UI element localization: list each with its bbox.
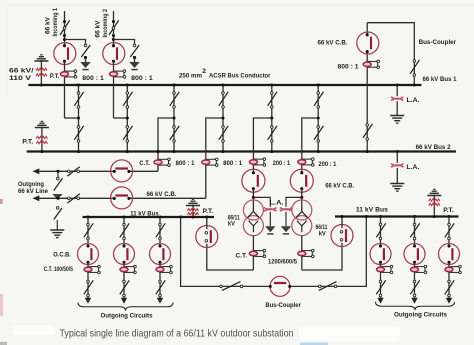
wire: incoming line 1 drop xyxy=(64,11,66,45)
isolator to Bus 1, selector 2 xyxy=(123,92,132,109)
brace: left outgoing circuits xyxy=(78,303,173,311)
earthing switch, line 1 xyxy=(54,171,63,190)
node: selector 5 junction xyxy=(270,116,273,119)
wire: outgoing 66 kV line 1 xyxy=(38,170,115,172)
selector group 1 (incoming 1): wires xyxy=(65,85,79,152)
node: selector 6 on Bus 2 xyxy=(317,150,320,153)
line isolator, outgoing line 1 xyxy=(67,167,80,176)
isolator to Bus 1, selector 5 xyxy=(268,92,277,109)
wire: 11 kV coupler U-run xyxy=(181,217,367,287)
node: line 2 earthing junction xyxy=(56,197,59,200)
isolator to Bus 2, selector 2 xyxy=(123,126,132,143)
current transformer, incoming 1, 800:1 xyxy=(61,70,77,78)
potential transformer P.T. on right 11 kV bus xyxy=(427,189,441,218)
svg-text:66 kV Line: 66 kV Line xyxy=(18,188,48,195)
isolator switch, incoming 1 xyxy=(60,20,70,37)
11 kV Bus (right section) xyxy=(335,215,459,217)
node: selector 1 on Bus 1 xyxy=(77,83,80,86)
feeder 1 (left bus, O.C.B.) xyxy=(78,215,101,303)
current transformer 200:1 on T1 feeder xyxy=(249,158,265,166)
node: selector 2 on Bus 1 xyxy=(126,83,129,86)
label: 66 kV Incoming 2 (vertical) xyxy=(95,9,110,38)
current transformer C.T. 800:1 on line 1 feeder xyxy=(154,158,170,166)
isolator to Bus 1, selector 6 xyxy=(314,92,323,109)
svg-text:Outgoing: Outgoing xyxy=(18,181,44,188)
brace: right outgoing circuits xyxy=(376,302,455,310)
earthing switch, incoming 1 xyxy=(81,44,90,62)
node: line 1 earthing junction xyxy=(56,170,59,173)
isolator to Bus 2, selector 5 xyxy=(268,126,277,143)
wire: incoming 2 below breaker xyxy=(113,61,115,118)
isolator to Bus 1, selector 4 xyxy=(219,92,228,109)
node: selector 4 on Bus 2 xyxy=(221,150,224,153)
wire: T1 arrester down lead xyxy=(269,212,271,226)
wire: breaker to right 11 kV bus xyxy=(341,217,343,229)
wire: coupler left leg from Bus 2 up through breaker to top rail xyxy=(367,23,414,152)
feeder 4 (right bus) xyxy=(370,215,393,304)
circuit breaker, 11 kV bus coupler xyxy=(269,276,292,296)
ground, bus 2 arrester xyxy=(390,184,404,192)
circuit breaker 66 kV side of T2 xyxy=(290,169,313,192)
feeder 2 (left bus) xyxy=(114,215,137,303)
node: line 1 feeder crossing on Bus 2 xyxy=(156,150,159,153)
potential transformer P.T. on Bus 1 (66 kV / 110 V) xyxy=(34,55,48,87)
svg-text:Outgoing Circuits: Outgoing Circuits xyxy=(101,312,153,319)
feeder 3 (left bus) xyxy=(150,215,173,303)
svg-text:L.A.: L.A. xyxy=(407,97,420,104)
ground (arrow electrode), T1 arrester xyxy=(265,226,275,234)
watermark blue mark xyxy=(300,343,328,345)
node: incoming 2 top terminal xyxy=(112,20,115,23)
feeder 5 (right bus) xyxy=(404,215,427,304)
svg-text:66 kV Bus 1: 66 kV Bus 1 xyxy=(423,76,457,83)
11 kV Bus (left section) xyxy=(83,216,215,218)
svg-text:66 kV C.B.: 66 kV C.B. xyxy=(147,191,177,198)
lightning arrester L.A. on Bus 1 xyxy=(396,83,399,115)
isolator on coupler leg between buses xyxy=(363,124,372,141)
svg-text:C.T.: C.T. xyxy=(139,160,150,167)
isolator to Bus 2, selector 4 xyxy=(219,126,228,143)
L.A. symbol (T1) xyxy=(264,208,276,212)
wire: T1 arrester branch xyxy=(253,197,270,206)
isolator to Bus 2, selector 6 xyxy=(314,126,323,143)
node: selector 2 junction xyxy=(126,116,129,119)
wire: T2 arrester branch xyxy=(286,197,302,206)
node: selector 6 on Bus 1 xyxy=(317,83,320,86)
isolator switch, incoming 2 xyxy=(109,20,119,37)
node: selector 3 junction xyxy=(172,116,175,119)
watermark corner mark xyxy=(0,342,7,345)
current transformer C.T. 1200/600/5 on T1 secondary xyxy=(249,249,265,257)
66 kV Bus 2 xyxy=(27,150,456,152)
node: selector 1 on Bus 2 xyxy=(77,150,80,153)
svg-text:2: 2 xyxy=(202,68,206,75)
svg-text:Incoming 2: Incoming 2 xyxy=(102,9,109,38)
isolator to Bus 2, selector 3 xyxy=(170,126,179,143)
L.A. symbol (T2) xyxy=(280,208,292,212)
circuit breaker on outgoing line 2 (66 kV C.B.) xyxy=(111,187,133,209)
isolator, 11 kV coupler right xyxy=(319,282,337,291)
svg-text:C.T. 100/50/5: C.T. 100/50/5 xyxy=(44,266,73,273)
circuit breaker, incoming 1 (66 kV C.B.) xyxy=(54,43,76,65)
wire: incoming 1 earthing branch xyxy=(65,40,86,46)
svg-text:800 : 1: 800 : 1 xyxy=(338,64,359,71)
ground (bar electrode), line 2 earthing switch xyxy=(50,230,64,238)
node: incoming 1 top terminal xyxy=(63,20,66,23)
circuit breaker on outgoing line 1 xyxy=(111,160,133,182)
svg-text:66 kV: 66 kV xyxy=(45,17,52,34)
node: coupler on Bus 1 xyxy=(413,83,416,86)
watermark blob (bottom left) xyxy=(13,326,55,336)
svg-text:P.T.: P.T. xyxy=(443,207,454,214)
svg-text:66 kV C.B.: 66 kV C.B. xyxy=(318,39,348,46)
svg-text:66 kV/: 66 kV/ xyxy=(9,68,34,75)
svg-text:800 : 1: 800 : 1 xyxy=(82,75,104,82)
svg-text:Outgoing Circuits: Outgoing Circuits xyxy=(394,312,447,319)
wire: breaker to left 11 kV bus xyxy=(206,217,208,229)
svg-text:11 kV Bus: 11 kV Bus xyxy=(130,210,159,217)
circuit breaker, T1 to 11 kV bus xyxy=(196,226,218,248)
wire: T2 secondary down xyxy=(301,236,303,270)
potential transformer P.T. on Bus 2 xyxy=(35,121,49,153)
ground (arrow electrode), T2 arrester xyxy=(281,226,291,234)
svg-text:110 V: 110 V xyxy=(9,75,32,82)
arrowhead: outgoing line 2 xyxy=(33,195,40,201)
svg-text:kV: kV xyxy=(319,230,326,237)
svg-text:P.T.: P.T. xyxy=(22,139,33,146)
node: T1 arrester tap xyxy=(252,196,255,199)
node: T2 arrester tap xyxy=(300,196,303,199)
isolator to Bus 1, selector 1 xyxy=(74,92,83,109)
svg-text:66 kV: 66 kV xyxy=(95,20,102,37)
ground (arrow electrode), incoming 1 earthing switch xyxy=(80,62,90,70)
watermark pink streaks xyxy=(0,199,3,204)
svg-text:L.A.: L.A. xyxy=(270,200,284,207)
ground, bus 1 arrester xyxy=(390,116,404,124)
svg-text:250 mm: 250 mm xyxy=(179,72,202,79)
earthing switch, line 2 xyxy=(54,207,62,230)
wire: T2 breaker to transformer xyxy=(301,189,303,204)
wire: T1 secondary to 11 kV bus breaker xyxy=(207,244,254,270)
svg-text:66 kV C.B.: 66 kV C.B. xyxy=(325,183,354,190)
selector group 4 (outgoing 66 kV line 2): wires xyxy=(206,85,223,198)
label: 66 kV Incoming 1 (vertical) xyxy=(45,8,60,37)
selector group 3 (outgoing 66 kV line 1): wires xyxy=(158,85,174,171)
svg-text:Bus-Coupler: Bus-Coupler xyxy=(419,39,457,46)
isolator to Bus 1, selector 3 xyxy=(170,92,179,109)
svg-text:800 : 1: 800 : 1 xyxy=(223,160,242,167)
isolator, 11 kV coupler left xyxy=(220,282,243,291)
node: selector 6 junction xyxy=(317,116,320,119)
current transformer on T2 secondary xyxy=(298,249,314,257)
wire: T2 secondary to 11 kV bus breaker xyxy=(302,243,342,270)
selector group 6 (transformer T2): wires xyxy=(302,85,318,173)
svg-text:ACSR Bus Conductor: ACSR Bus Conductor xyxy=(209,72,271,79)
svg-text:800 : 1: 800 : 1 xyxy=(176,160,195,167)
potential transformer P.T. on left 11 kV bus xyxy=(186,199,200,218)
ground (arrow electrode), incoming 2 earthing switch xyxy=(129,62,139,70)
svg-text:1200/600/5: 1200/600/5 xyxy=(268,258,297,265)
66 kV Bus 1 (250 sq-mm ACSR bus conductor) xyxy=(28,84,421,86)
svg-text:O.C.B.: O.C.B. xyxy=(53,252,71,259)
svg-text:66 kV Bus 2: 66 kV Bus 2 xyxy=(416,144,451,151)
node: incoming 1 earthing-branch junction xyxy=(63,38,66,41)
circuit breaker, T2 to 11 kV bus xyxy=(331,225,353,247)
wire: incoming 2 earthing branch xyxy=(114,40,135,46)
node: selector 3 on Bus 2 xyxy=(172,150,175,153)
svg-text:L.A.: L.A. xyxy=(406,164,419,171)
circuit breaker, incoming 2 (66 kV C.B.) xyxy=(103,43,125,65)
line isolator, outgoing line 2 xyxy=(67,194,80,203)
node: selector 4 junction xyxy=(221,116,224,119)
wire: incoming line 2 drop xyxy=(113,11,115,45)
node: incoming 2 earthing-branch junction xyxy=(112,38,115,41)
wire: T1 secondary down xyxy=(252,236,254,270)
isolator to Bus 2, selector 1 xyxy=(74,126,83,143)
L.A. symbol (bus 1) xyxy=(391,97,403,101)
svg-text:Incoming 1: Incoming 1 xyxy=(52,8,59,37)
wire: incoming 1 below breaker xyxy=(64,61,66,118)
svg-text:P.T.: P.T. xyxy=(50,73,60,80)
L.A. symbol (bus 2) xyxy=(391,164,403,168)
bus-coupler isolator (right leg) xyxy=(410,60,419,77)
selector group 2 (incoming 2): wires xyxy=(114,85,128,152)
node: selector 3 on Bus 1 xyxy=(172,83,175,86)
circuit breaker 66 kV side of T1 xyxy=(242,169,265,192)
node: selector 5 on Bus 2 xyxy=(270,150,273,153)
current transformer 200:1 on T2 feeder xyxy=(298,158,314,166)
feeder 6 (right bus) xyxy=(439,215,462,304)
node: coupler on Bus 2 xyxy=(366,150,369,153)
earthing switch, incoming 2 xyxy=(130,44,139,62)
lightning arrester L.A. on Bus 2 xyxy=(396,150,399,183)
ground (arrow electrode) at line 2 for line 1 earthing switch xyxy=(52,194,62,199)
current transformer, incoming 2, 800:1 xyxy=(110,70,126,78)
label: 250 sq-mm ACSR Bus Conductor xyxy=(179,68,271,80)
svg-text:11 kV Bus: 11 kV Bus xyxy=(356,207,388,214)
node: selector 1 junction xyxy=(77,116,80,119)
wire: T1 breaker to transformer xyxy=(252,189,254,204)
watermark box (bottom right) xyxy=(299,327,400,341)
svg-text:C.T.: C.T. xyxy=(236,253,248,260)
svg-text:P.T.: P.T. xyxy=(203,208,214,215)
node: coupler on right 11 kV bus xyxy=(365,215,368,218)
transformer T1 66/11 kV (two-winding) xyxy=(243,200,263,236)
selector group 5 (transformer T1): wires xyxy=(253,85,271,173)
svg-text:Bus-Coupler: Bus-Coupler xyxy=(265,302,301,309)
circuit breaker 66 kV C.B. (bus coupler) xyxy=(357,32,379,54)
current transformer 800:1 on line 2 feeder xyxy=(202,158,218,166)
svg-text:800 : 1: 800 : 1 xyxy=(131,75,153,82)
node: T2 feed on right 11 kV bus xyxy=(340,215,343,218)
svg-text:200 : 1: 200 : 1 xyxy=(273,160,291,167)
node: selector 4 on Bus 1 xyxy=(221,83,224,86)
transformer T2 66/11 kV (two-winding) xyxy=(292,200,312,236)
svg-text:Typical single line diagram of: Typical single line diagram of a 66/11 k… xyxy=(60,328,294,339)
wire: outgoing 66 kV line 2 xyxy=(38,197,115,199)
arrowhead: outgoing line 1 xyxy=(33,168,40,174)
svg-text:200 : 1: 200 : 1 xyxy=(318,161,336,168)
node: coupler on left 11 kV bus xyxy=(179,215,182,218)
node: selector 2 on Bus 2 xyxy=(126,150,129,153)
svg-text:kV: kV xyxy=(228,221,235,228)
wire: T2 arrester down lead xyxy=(285,212,287,226)
current transformer 800:1 on coupler xyxy=(363,60,379,68)
page frame edge xyxy=(7,5,474,96)
node: T1 feed on left 11 kV bus xyxy=(205,215,208,218)
node: selector 5 on Bus 1 xyxy=(270,83,273,86)
